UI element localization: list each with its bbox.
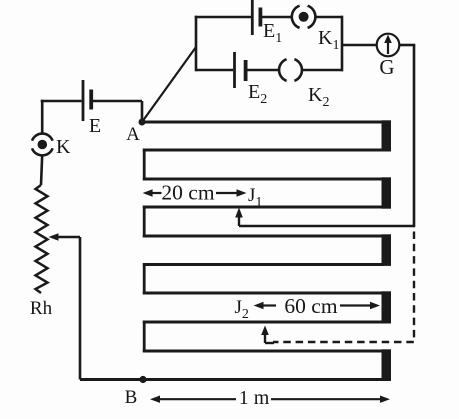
wire battery E to node A corner	[92, 100, 142, 103]
wire right rail of battery branches	[341, 16, 344, 72]
potentiometer wire run 4	[143, 206, 384, 209]
wire left rail of battery branches	[195, 16, 198, 72]
battery E2	[235, 52, 246, 88]
svg-text:Rh: Rh	[30, 298, 53, 319]
key K2	[279, 59, 302, 81]
jockey J2 arrow	[261, 326, 274, 344]
wire E1 to key K1	[261, 16, 292, 19]
copper end strip 4	[382, 291, 392, 323]
wire diagonal A to branch rail	[142, 47, 196, 122]
dimension arrow 20 cm left head	[143, 189, 162, 196]
dimension arrow 20 cm right head	[216, 189, 247, 196]
wire from K corner to battery E	[41, 100, 82, 103]
left bend 2	[143, 206, 146, 238]
wire K1 to right rail	[315, 16, 343, 19]
dimension arrow 60 cm left head	[254, 302, 277, 309]
left bend 4	[143, 321, 146, 353]
potentiometer wire run 10 bottom	[80, 378, 384, 381]
svg-text:E: E	[89, 115, 101, 137]
svg-text:20 cm: 20 cm	[161, 181, 214, 205]
svg-text:K: K	[56, 136, 71, 158]
wire galvanometer to right down rail	[400, 44, 416, 47]
wire E2 to key K2	[246, 69, 279, 72]
potentiometer wire run 5	[143, 235, 384, 238]
rheostat wiper arrow	[49, 233, 81, 241]
wire J1 horizontal connection	[239, 225, 414, 228]
svg-text:K1: K1	[318, 27, 339, 53]
left bend 1	[143, 149, 146, 181]
node A	[139, 119, 146, 126]
potentiometer wire run 1	[142, 121, 386, 124]
key K1	[292, 6, 316, 28]
galvanometer G	[377, 34, 400, 57]
wire corner down to key K	[41, 100, 44, 134]
svg-text:E1: E1	[263, 20, 282, 46]
dimension arrow 1 m right head	[271, 396, 390, 403]
svg-text:K2: K2	[308, 84, 329, 110]
wire down to node A	[141, 101, 144, 122]
node B	[139, 376, 146, 383]
wire K2 to right rail	[302, 69, 343, 72]
potentiometer wire run 9	[143, 350, 384, 353]
wire key K to rheostat	[41, 155, 42, 185]
rheostat Rh	[36, 185, 48, 293]
dimension arrow 60 cm right head	[340, 302, 380, 309]
wire top branch left	[195, 16, 251, 19]
wire right rail down to J1 wire	[413, 45, 416, 227]
jockey J1 arrow	[235, 208, 243, 227]
potentiometer wire run 6	[143, 263, 384, 266]
potentiometer wire run 3	[143, 178, 384, 181]
potentiometer wire run 8	[143, 321, 384, 324]
svg-text:G: G	[379, 55, 394, 79]
svg-text:B: B	[125, 387, 138, 408]
svg-text:1 m: 1 m	[239, 387, 270, 409]
svg-text:60 cm: 60 cm	[284, 294, 337, 318]
copper end strip 5	[382, 349, 392, 381]
wire rail to galvanometer	[342, 44, 377, 47]
potentiometer wire run 7	[143, 292, 384, 295]
battery E	[83, 80, 91, 121]
dashed wire from rail to jockey J2	[273, 232, 414, 343]
copper end strip 2	[382, 177, 392, 208]
battery E1	[252, 0, 260, 35]
potentiometer wire run 2	[143, 149, 384, 152]
svg-text:J2: J2	[235, 297, 249, 322]
dimension arrow 1 m left head	[150, 396, 236, 403]
copper end strip 1	[382, 120, 392, 151]
svg-text:A: A	[126, 124, 140, 145]
wire wiper down to bottom line	[79, 237, 82, 380]
left bend 3	[143, 263, 146, 294]
svg-text:E2: E2	[248, 81, 267, 107]
wire bottom branch left	[196, 69, 233, 72]
key K	[32, 134, 53, 156]
copper end strip 3	[382, 234, 392, 266]
